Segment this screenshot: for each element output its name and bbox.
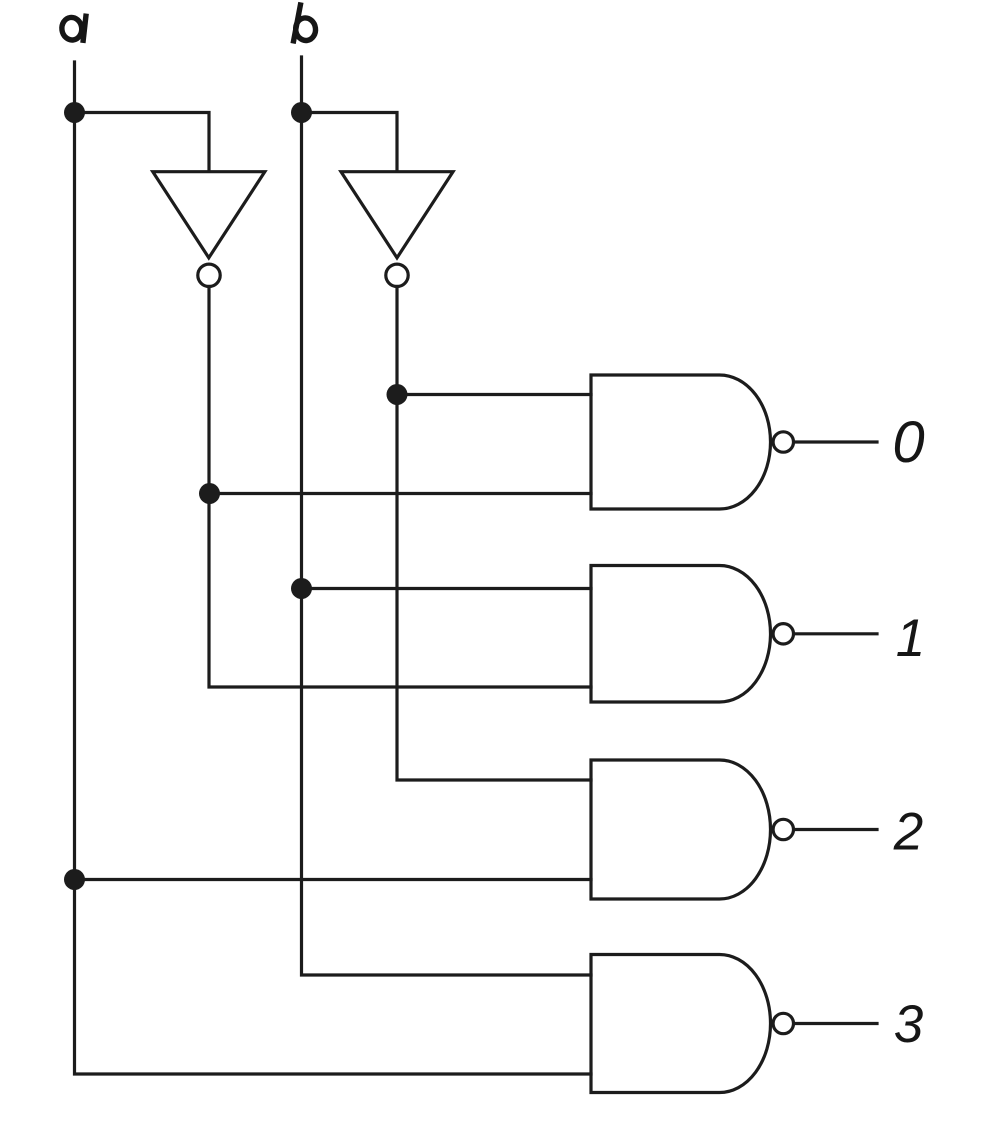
inverter U2 triangle [341, 172, 453, 258]
wire output 2 [795, 828, 878, 831]
inverter U1 bubble [198, 264, 220, 286]
wire b-bar vertical from U2 output [397, 287, 591, 781]
svg-text:0: 0 [892, 410, 924, 475]
wire a vertical trunk [75, 62, 592, 1074]
wire a to NAND U5 lower input [75, 878, 592, 881]
wire b-bar to NAND U3 upper input [397, 393, 591, 396]
label a [60, 16, 85, 41]
node a-bar junction [199, 483, 220, 504]
svg-text:3: 3 [894, 995, 924, 1054]
nand U4 bubble [773, 624, 793, 644]
label b [294, 5, 317, 42]
nand U3 bubble [773, 432, 793, 452]
inverter U2 bubble [386, 264, 408, 286]
svg-text:1: 1 [896, 609, 925, 668]
wire a branch to inverter U1 input [75, 113, 210, 172]
wire b vertical trunk [302, 57, 592, 975]
svg-text:2: 2 [893, 803, 923, 862]
node b-bar junction [387, 384, 408, 405]
wire output 3 [795, 1022, 878, 1025]
node b junction top [291, 102, 312, 123]
wire output 1 [795, 632, 878, 635]
node b junction middle [291, 578, 312, 599]
nand U5 body [591, 760, 771, 899]
wire a-bar to NAND U3 lower input [210, 492, 592, 495]
nand U6 body [591, 955, 771, 1093]
wire b branch to inverter U2 input [302, 113, 398, 172]
nand U6 bubble [773, 1013, 793, 1033]
inverter U1 triangle [153, 172, 265, 258]
nand U4 body [591, 566, 771, 703]
wire b to NAND U4 upper input [302, 587, 592, 590]
wire output 0 [795, 440, 878, 443]
nand U5 bubble [773, 819, 793, 839]
wire a-bar vertical from U1 output [209, 287, 591, 688]
node a junction lower [64, 869, 85, 890]
nand U3 body [591, 375, 771, 509]
node a junction top [64, 102, 85, 123]
